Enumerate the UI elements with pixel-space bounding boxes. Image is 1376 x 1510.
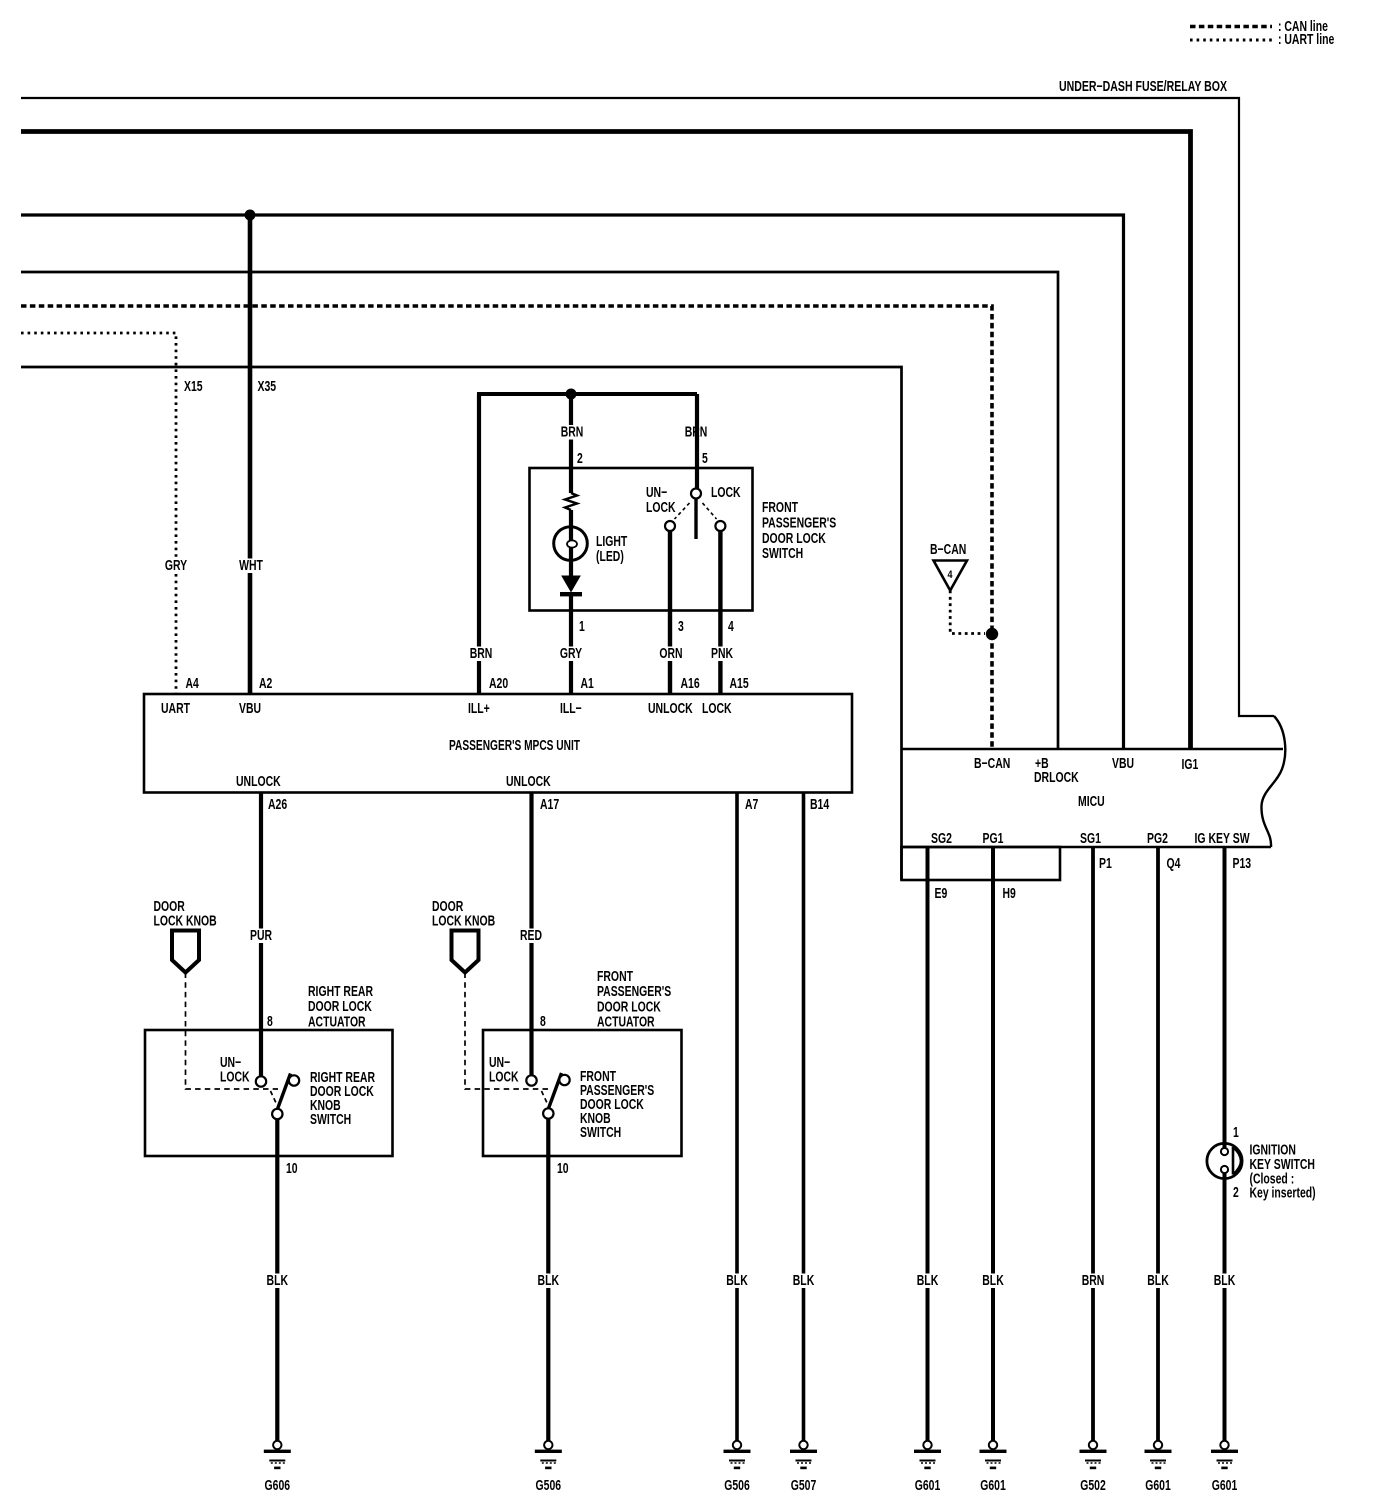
under-dash fuse/relay box outline bbox=[21, 98, 1274, 716]
svg-text:LOCK: LOCK bbox=[489, 1070, 519, 1086]
wire GRY pin 1 to A1 bbox=[569, 596, 573, 694]
svg-text:BLK: BLK bbox=[1214, 1273, 1236, 1289]
svg-text:BRN: BRN bbox=[470, 646, 493, 662]
UNLOCK contact (front passenger) bbox=[526, 1075, 536, 1085]
svg-text:PASSENGER'S: PASSENGER'S bbox=[762, 515, 836, 531]
svg-text:A2: A2 bbox=[259, 676, 272, 692]
svg-text:G506: G506 bbox=[536, 1478, 562, 1494]
ignition key switch bbox=[1207, 1143, 1242, 1178]
svg-text:4: 4 bbox=[948, 569, 954, 581]
right rear door lock actuator box bbox=[145, 1030, 393, 1156]
svg-text:LOCK KNOB: LOCK KNOB bbox=[432, 914, 495, 930]
svg-text:VBU: VBU bbox=[1112, 756, 1134, 772]
svg-text:LOCK: LOCK bbox=[711, 485, 741, 501]
ground G606 (right rear) bbox=[264, 1441, 291, 1494]
wire color BRN (P1) bbox=[1080, 1273, 1107, 1289]
label DOOR LOCK KNOB (front passenger) bbox=[432, 899, 495, 930]
svg-text:X15: X15 bbox=[184, 379, 203, 395]
svg-text:A4: A4 bbox=[186, 676, 199, 692]
switch pivot (front passenger) bbox=[543, 1108, 553, 1118]
svg-text:LOCK KNOB: LOCK KNOB bbox=[154, 914, 217, 930]
svg-text:PNK: PNK bbox=[711, 646, 733, 662]
wire BLK SG2/E9 to G601 bbox=[926, 847, 930, 1440]
svg-text:2: 2 bbox=[577, 451, 583, 467]
svg-text:PG2: PG2 bbox=[1147, 831, 1168, 847]
svg-text:MICU: MICU bbox=[1078, 794, 1105, 810]
wire top horizontal to switch bbox=[477, 392, 697, 396]
wire BLK PG2/Q4 to G601 bbox=[1156, 847, 1160, 1440]
knob switch arm (front passenger) bbox=[548, 1073, 561, 1109]
svg-text:BLK: BLK bbox=[1147, 1273, 1169, 1289]
svg-text:WHT: WHT bbox=[239, 558, 263, 574]
svg-text:FRONT: FRONT bbox=[762, 500, 798, 516]
svg-text:GRY: GRY bbox=[165, 558, 187, 574]
open contact (right rear switch) bbox=[289, 1075, 299, 1085]
svg-text:LOCK: LOCK bbox=[646, 500, 676, 516]
wire feed to MICU / MICU left edge bbox=[21, 367, 902, 880]
svg-text:A16: A16 bbox=[681, 676, 700, 692]
svg-text:ACTUATOR: ACTUATOR bbox=[308, 1014, 366, 1030]
wire color GRY bbox=[163, 558, 189, 574]
svg-text:PUR: PUR bbox=[250, 928, 272, 944]
label FRONT PASSENGER'S DOOR LOCK KNOB SWITCH bbox=[580, 1069, 654, 1141]
svg-text:Key inserted): Key inserted) bbox=[1250, 1186, 1316, 1202]
wire UART bus (dotted) to A4 bbox=[21, 333, 176, 694]
LOCK contact bbox=[715, 521, 725, 531]
front passenger door lock actuator box bbox=[483, 1030, 682, 1156]
wire PUR A26 to actuator pin 8 bbox=[259, 792, 263, 1077]
svg-text:PASSENGER'S: PASSENGER'S bbox=[597, 984, 671, 1000]
dashed knob throw (right rear) bbox=[271, 1091, 278, 1105]
svg-text:B−CAN: B−CAN bbox=[974, 756, 1010, 772]
wire color BLK (A7) bbox=[724, 1273, 750, 1289]
svg-text:8: 8 bbox=[267, 1014, 273, 1030]
svg-text:RED: RED bbox=[520, 928, 542, 944]
wire WHT X35 to A2 bbox=[248, 215, 253, 694]
door lock knob symbol (right rear) bbox=[172, 931, 199, 973]
svg-text:G502: G502 bbox=[1080, 1478, 1106, 1494]
svg-text:4: 4 bbox=[728, 619, 734, 635]
dashed throw to UNLOCK bbox=[675, 503, 690, 519]
svg-text:1: 1 bbox=[579, 619, 585, 635]
svg-text:H9: H9 bbox=[1003, 886, 1016, 902]
ground G601 (H9) bbox=[980, 1441, 1007, 1494]
wire color PNK (A15) bbox=[709, 646, 735, 662]
label RIGHT REAR DOOR LOCK KNOB SWITCH bbox=[310, 1070, 375, 1128]
svg-text:FRONT: FRONT bbox=[597, 969, 633, 985]
dashed throw to LOCK bbox=[703, 503, 717, 519]
svg-text:A17: A17 bbox=[540, 797, 559, 813]
resistor (LED series) bbox=[565, 493, 577, 510]
ground G601 (E9) bbox=[914, 1441, 941, 1494]
wire color BLK (B14) bbox=[791, 1273, 817, 1289]
LED diode symbol bbox=[562, 576, 580, 592]
svg-text:A1: A1 bbox=[581, 676, 594, 692]
wire IG1 feed bbox=[21, 132, 1191, 750]
UNLOCK contact (right rear) bbox=[256, 1076, 266, 1086]
ground G507 (B14) bbox=[790, 1441, 817, 1494]
svg-text:P1: P1 bbox=[1099, 856, 1112, 872]
svg-text:GRY: GRY bbox=[560, 646, 582, 662]
wire color PUR bbox=[248, 928, 274, 944]
svg-text:BLK: BLK bbox=[982, 1273, 1004, 1289]
dashed knob linkage (right rear) bbox=[186, 973, 279, 1090]
svg-text:LOCK: LOCK bbox=[702, 701, 732, 717]
wire color RED bbox=[518, 928, 544, 944]
svg-text:G606: G606 bbox=[265, 1478, 291, 1494]
svg-text:G601: G601 bbox=[1212, 1478, 1238, 1494]
svg-text:UART: UART bbox=[161, 701, 190, 717]
dotted link to B-CAN bus bbox=[950, 591, 985, 634]
ground G502 (P1) bbox=[1080, 1441, 1107, 1494]
ground G601 (P13) bbox=[1211, 1441, 1238, 1494]
MICU box bbox=[902, 716, 1286, 847]
svg-text:IG1: IG1 bbox=[1182, 757, 1199, 773]
wire to pin 2 bbox=[569, 394, 573, 493]
wire BLK pin 10 to G506 (right rear) bbox=[275, 1119, 279, 1440]
svg-text:A15: A15 bbox=[730, 676, 749, 692]
svg-text:10: 10 bbox=[557, 1161, 569, 1177]
svg-text:ORN: ORN bbox=[659, 646, 682, 662]
wire BLK PG1/H9 to G601 bbox=[991, 847, 995, 1440]
LED lamp circle bbox=[554, 527, 588, 561]
svg-text:ILL−: ILL− bbox=[560, 701, 582, 717]
switch arm (neutral) bbox=[694, 499, 697, 539]
wire color BLK (E9) bbox=[915, 1273, 941, 1289]
svg-text:BRN: BRN bbox=[561, 425, 584, 441]
svg-text:1: 1 bbox=[1233, 1125, 1239, 1141]
wire BRN A20 riser bbox=[477, 394, 481, 694]
ground G506 (A7) bbox=[724, 1441, 751, 1494]
junction on B-CAN bus bbox=[986, 628, 998, 640]
wire BLK pin 10 to G506 (front passenger) bbox=[546, 1119, 550, 1441]
wire PNK pin 4 to A15 bbox=[718, 531, 722, 694]
svg-text:3: 3 bbox=[678, 619, 684, 635]
svg-text:B14: B14 bbox=[810, 797, 829, 813]
svg-text:SG2: SG2 bbox=[931, 831, 952, 847]
svg-text:UN−: UN− bbox=[646, 485, 667, 501]
svg-text:IG KEY SW: IG KEY SW bbox=[1195, 831, 1250, 847]
svg-text:G507: G507 bbox=[791, 1478, 817, 1494]
connector box E9/H9 bbox=[902, 847, 1061, 880]
svg-text:BRN: BRN bbox=[1082, 1273, 1105, 1289]
svg-text:UNLOCK: UNLOCK bbox=[236, 774, 281, 790]
svg-text:SWITCH: SWITCH bbox=[762, 546, 803, 562]
svg-text:G601: G601 bbox=[1145, 1478, 1171, 1494]
wire VBU feed bbox=[21, 215, 1124, 749]
wire to pin 5 bbox=[695, 394, 699, 489]
svg-text:X35: X35 bbox=[258, 379, 277, 395]
svg-text:ILL+: ILL+ bbox=[468, 701, 490, 717]
B-CAN page connector triangle 4 bbox=[934, 561, 968, 591]
svg-text:BLK: BLK bbox=[917, 1273, 939, 1289]
svg-text:G601: G601 bbox=[980, 1478, 1006, 1494]
wire color ORN (A16) bbox=[657, 646, 684, 662]
legend UART line sample bbox=[1190, 39, 1272, 42]
wire IG KEY SW/P13 upper bbox=[1223, 847, 1227, 1149]
wire BLK key switch to G601 bbox=[1223, 1172, 1227, 1440]
wire ORN pin 3 to A16 bbox=[668, 531, 672, 694]
svg-text:8: 8 bbox=[540, 1014, 546, 1030]
svg-text:A7: A7 bbox=[745, 797, 758, 813]
wire BLK B14 to G507 bbox=[802, 792, 806, 1440]
dashed knob linkage (front passenger) bbox=[465, 973, 549, 1090]
svg-text:BLK: BLK bbox=[538, 1273, 560, 1289]
svg-text:VBU: VBU bbox=[239, 701, 261, 717]
svg-text:BLK: BLK bbox=[726, 1273, 748, 1289]
svg-text:(LED): (LED) bbox=[596, 549, 624, 565]
label FRONT PASSENGER'S DOOR LOCK ACTUATOR bbox=[597, 969, 671, 1031]
wire resistor to diode bbox=[569, 510, 573, 576]
svg-text:UNDER−DASH FUSE/RELAY BOX: UNDER−DASH FUSE/RELAY BOX bbox=[1059, 79, 1227, 95]
svg-text:G506: G506 bbox=[724, 1478, 750, 1494]
svg-text:BLK: BLK bbox=[267, 1273, 289, 1289]
wire color BLK (Q4) bbox=[1145, 1273, 1171, 1289]
wire B-CAN bus (dashed) bbox=[21, 306, 992, 749]
svg-text:PASSENGER'S MPCS UNIT: PASSENGER'S MPCS UNIT bbox=[449, 738, 580, 754]
wire color BLK (P13) bbox=[1212, 1273, 1238, 1289]
wire color BRN (pin 5) bbox=[683, 425, 710, 441]
svg-text:: UART line: : UART line bbox=[1278, 32, 1334, 48]
junction on BRN horizontal bbox=[566, 389, 577, 400]
label IGNITION KEY SWITCH bbox=[1250, 1143, 1316, 1202]
label RIGHT REAR DOOR LOCK ACTUATOR bbox=[308, 984, 373, 1030]
door lock knob symbol (front passenger) bbox=[452, 931, 479, 973]
wire color BLK (right rear pin10) bbox=[265, 1273, 291, 1289]
wire color BRN (A20) bbox=[468, 646, 495, 662]
svg-text:DOOR LOCK: DOOR LOCK bbox=[762, 531, 826, 547]
open contact (front passenger switch) bbox=[559, 1075, 569, 1085]
wire color WHT bbox=[237, 558, 265, 574]
svg-text:ACTUATOR: ACTUATOR bbox=[597, 1015, 655, 1031]
knob switch arm (right rear) bbox=[277, 1074, 290, 1110]
svg-text:BLK: BLK bbox=[793, 1273, 815, 1289]
svg-text:DOOR LOCK: DOOR LOCK bbox=[308, 999, 372, 1015]
svg-text:UNLOCK: UNLOCK bbox=[648, 701, 693, 717]
svg-text:A20: A20 bbox=[489, 676, 508, 692]
label DOOR LOCK KNOB (right rear) bbox=[154, 899, 217, 930]
UNLOCK contact bbox=[665, 521, 675, 531]
svg-text:LOCK: LOCK bbox=[220, 1070, 250, 1086]
switch common contact (pin 5) bbox=[691, 489, 701, 499]
wire color BLK (H9) bbox=[980, 1273, 1006, 1289]
svg-text:P13: P13 bbox=[1233, 856, 1252, 872]
svg-text:SG1: SG1 bbox=[1080, 831, 1101, 847]
svg-text:DRLOCK: DRLOCK bbox=[1034, 770, 1079, 786]
svg-text:UNLOCK: UNLOCK bbox=[506, 774, 551, 790]
svg-text:G601: G601 bbox=[915, 1478, 941, 1494]
wire color BLK (front passenger pin10) bbox=[536, 1273, 562, 1289]
svg-text:DOOR LOCK: DOOR LOCK bbox=[597, 999, 661, 1015]
svg-text:Q4: Q4 bbox=[1167, 856, 1181, 872]
svg-text:RIGHT REAR: RIGHT REAR bbox=[308, 984, 373, 1000]
ground G506 (front passenger) bbox=[535, 1441, 562, 1494]
svg-text:SWITCH: SWITCH bbox=[580, 1125, 621, 1141]
svg-text:B−CAN: B−CAN bbox=[930, 542, 966, 558]
switch pivot (right rear) bbox=[272, 1109, 282, 1119]
svg-text:LIGHT: LIGHT bbox=[596, 534, 627, 550]
wire color BRN (pin 2) bbox=[559, 425, 586, 441]
wire +B DRLOCK feed bbox=[21, 272, 1058, 749]
front passenger door lock switch box bbox=[530, 468, 753, 611]
junction on VBU feed bbox=[245, 210, 256, 221]
wire color GRY (A1) bbox=[558, 646, 584, 662]
dashed knob throw (front passenger) bbox=[542, 1091, 549, 1105]
wire RED A17 to actuator pin 8 bbox=[529, 792, 533, 1076]
legend CAN line sample bbox=[1190, 25, 1272, 29]
passenger's MPCS unit box bbox=[144, 694, 852, 793]
ground G601 (Q4) bbox=[1145, 1441, 1172, 1494]
svg-text:SWITCH: SWITCH bbox=[310, 1112, 351, 1128]
svg-text:10: 10 bbox=[286, 1161, 298, 1177]
svg-text:PG1: PG1 bbox=[983, 831, 1004, 847]
svg-text:E9: E9 bbox=[935, 886, 948, 902]
svg-text:A26: A26 bbox=[268, 797, 287, 813]
label FRONT PASSENGER'S DOOR LOCK SWITCH bbox=[762, 500, 836, 562]
svg-text:5: 5 bbox=[702, 451, 708, 467]
svg-text:2: 2 bbox=[1233, 1185, 1239, 1201]
wire BLK A7 to G506 bbox=[735, 792, 739, 1440]
wire BRN SG1/P1 to G502 bbox=[1091, 847, 1095, 1440]
